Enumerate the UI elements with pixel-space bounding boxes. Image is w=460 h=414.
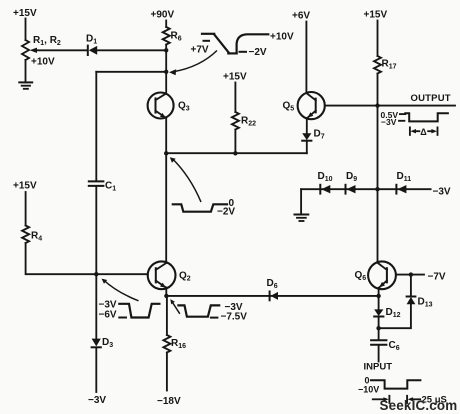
svg-text:Q2: Q2 xyxy=(179,271,191,283)
svg-text:Q3: Q3 xyxy=(178,101,190,113)
svg-text:D1: D1 xyxy=(86,34,97,46)
svg-text:D13: D13 xyxy=(418,297,433,309)
svg-text:+10V: +10V xyxy=(270,32,294,43)
svg-text:−3V: −3V xyxy=(433,187,451,198)
svg-text:Q6: Q6 xyxy=(355,270,367,282)
svg-text:+15V: +15V xyxy=(223,72,247,83)
svg-text:−3V: −3V xyxy=(88,395,106,406)
svg-text:C6: C6 xyxy=(389,340,400,352)
svg-text:C1: C1 xyxy=(105,181,116,193)
svg-text:+7V: +7V xyxy=(191,45,209,56)
svg-text:D11: D11 xyxy=(397,171,412,183)
svg-text:+6V: +6V xyxy=(292,11,310,22)
svg-text:D6: D6 xyxy=(267,278,278,290)
svg-text:+15V: +15V xyxy=(13,181,37,192)
svg-text:R6: R6 xyxy=(171,31,182,43)
svg-text:D9: D9 xyxy=(346,171,357,183)
svg-text:−10V: −10V xyxy=(358,385,379,395)
svg-text:Δ: Δ xyxy=(420,127,427,137)
svg-text:−7V: −7V xyxy=(428,272,446,283)
svg-text:−2V: −2V xyxy=(217,207,235,218)
svg-text:+15V: +15V xyxy=(13,8,37,19)
svg-text:−3V: −3V xyxy=(381,117,397,127)
svg-text:OUTPUT: OUTPUT xyxy=(411,93,451,104)
svg-text:+10V: +10V xyxy=(31,57,55,68)
svg-text:−7.5V: −7.5V xyxy=(221,312,248,323)
svg-text:R22: R22 xyxy=(241,116,256,128)
svg-text:R4: R4 xyxy=(31,231,42,243)
svg-text:D12: D12 xyxy=(386,307,401,319)
svg-text:INPUT: INPUT xyxy=(364,362,393,373)
svg-text:+90V: +90V xyxy=(151,10,175,21)
svg-text:SeekIC.com: SeekIC.com xyxy=(380,398,458,413)
svg-text:D3: D3 xyxy=(102,337,113,349)
svg-text:−6V: −6V xyxy=(99,310,117,321)
svg-text:+15V: +15V xyxy=(364,10,388,21)
svg-text:−18V: −18V xyxy=(157,396,181,407)
svg-text:R1, R2: R1, R2 xyxy=(33,35,61,47)
svg-text:R16: R16 xyxy=(171,338,186,350)
svg-text:−2V: −2V xyxy=(249,47,267,58)
svg-text:D7: D7 xyxy=(314,129,325,141)
svg-text:D10: D10 xyxy=(318,171,333,183)
svg-text:R17: R17 xyxy=(382,59,397,71)
svg-text:Q5: Q5 xyxy=(283,101,295,113)
